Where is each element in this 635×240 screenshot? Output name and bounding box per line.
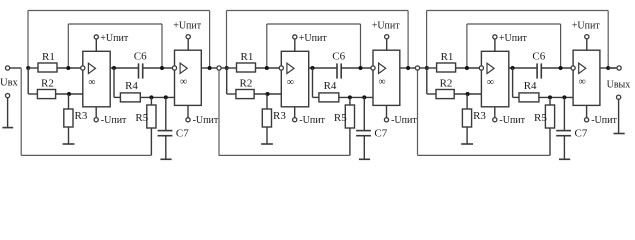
node: R4/R5 node	[548, 95, 552, 99]
wire	[420, 67, 427, 69]
wire R2 to op-amp noninverting input	[454, 93, 481, 95]
node: R4/R5 node	[348, 95, 352, 99]
svg-text:Uвх: Uвх	[0, 77, 19, 88]
+Uпит terminal (op-amp 3)	[294, 39, 296, 51]
capacitor C7 (stage 3)	[563, 97, 565, 130]
svg-text:+Uпит: +Uпит	[299, 33, 328, 44]
svg-text:+Uпит: +Uпит	[100, 33, 129, 44]
wire: op-amp 5 output	[509, 67, 537, 69]
+Uпит terminal (op-amp 6)	[586, 39, 588, 50]
svg-text:∞: ∞	[180, 77, 187, 88]
+Uпит terminal (op-amp 5)	[494, 39, 496, 51]
svg-text:R1: R1	[441, 51, 454, 63]
input terminal Uвх (signal)	[6, 66, 10, 70]
wire: input node down to R2	[426, 68, 428, 94]
terminal: stage 1 to stage 2 coupling	[217, 66, 221, 70]
wire	[221, 67, 227, 69]
node: stage 2 output node	[406, 66, 410, 70]
svg-text:R1: R1	[42, 51, 55, 63]
resistor R3 (stage 2)	[266, 94, 268, 109]
svg-text:R1: R1	[241, 51, 254, 63]
resistor R3 (stage 3)	[466, 94, 468, 109]
wire R4 to op-amp 2 noninverting input	[140, 96, 174, 98]
wire C6 to op-amp 6	[541, 67, 571, 69]
op-amp U2 (stage 1, second)	[175, 50, 202, 105]
node: stage 1 input node	[26, 66, 30, 70]
wire: op-amp 4 output	[400, 67, 416, 69]
svg-text:R2: R2	[240, 77, 253, 89]
svg-text:-Uпит: -Uпит	[299, 115, 325, 126]
resistor R4 (stage 1)	[120, 93, 140, 102]
wire: op-amp 1 output	[110, 67, 138, 69]
svg-text:C7: C7	[176, 128, 189, 140]
ground (below C7)	[559, 158, 570, 160]
capacitor C6 (stage 1)	[138, 63, 140, 78]
node A (stage 2, R1/C6 feedback node)	[265, 66, 269, 70]
-Uпит terminal (op-amp 6)	[586, 105, 588, 117]
-Uпит terminal (op-amp 5)	[494, 107, 496, 118]
wire: stage 1 outer feedback top line	[28, 10, 210, 12]
resistor R2 (stage 2)	[236, 90, 254, 99]
wire: input node down to R2	[27, 68, 29, 94]
resistor R4 (stage 3)	[519, 93, 539, 102]
wire: output node down to R4	[113, 68, 115, 97]
resistor R5 (stage 1)	[150, 97, 152, 105]
op-amp U6 (stage 3, second)	[573, 50, 600, 105]
resistor R3 (stage 1)	[68, 94, 70, 109]
wire: final output	[608, 67, 617, 69]
wire R2 to op-amp noninverting input	[56, 93, 83, 95]
terminal: stage 2 to stage 3 coupling	[415, 66, 419, 70]
wire: op-amp 2 output	[201, 67, 217, 69]
svg-text:+Uпит: +Uпит	[572, 21, 601, 32]
resistor R2 (stage 1)	[37, 90, 55, 99]
svg-text:R3: R3	[75, 110, 88, 122]
resistor R1 (stage 2)	[237, 63, 256, 72]
svg-text:∞: ∞	[579, 77, 586, 88]
wire: stage 3 bottom common line	[419, 154, 550, 156]
svg-text:R5: R5	[334, 112, 347, 124]
svg-text:R2: R2	[440, 77, 453, 89]
ground (below C7)	[160, 158, 171, 160]
resistor R1 (stage 3)	[437, 63, 456, 72]
wire C6 to op-amp 4	[341, 67, 371, 69]
-Uпит terminal (op-amp 1)	[95, 107, 97, 118]
ground (input common)	[2, 127, 13, 129]
svg-text:∞: ∞	[378, 77, 385, 88]
node: R2/R3 node	[466, 92, 470, 96]
-Uпит terminal (op-amp 3)	[294, 107, 296, 118]
svg-text:R3: R3	[273, 110, 286, 122]
resistor R1 (stage 1)	[38, 63, 57, 72]
wire: stage 2 outer feedback top line	[227, 10, 409, 12]
wire: op-amp 6 output	[600, 67, 616, 69]
wire C6 to op-amp 2	[143, 67, 173, 69]
wire	[456, 67, 481, 69]
ground (below R3)	[261, 143, 273, 145]
+Uпит terminal (op-amp 2)	[187, 39, 189, 50]
node: op-amp 5 output node	[511, 66, 515, 70]
node A (stage 3, R1/C6 feedback node)	[465, 66, 469, 70]
node: R2/R3 node	[266, 92, 270, 96]
ground (below R3)	[461, 143, 473, 145]
wire: coupling down to next stage common	[417, 70, 419, 155]
node: stage 3 input node	[425, 66, 429, 70]
wire: stage 3 inner feedback line	[467, 23, 561, 25]
node: R4/C7 node	[362, 95, 366, 99]
-Uпит terminal (op-amp 2)	[187, 105, 189, 117]
node: R4/R5 node	[149, 95, 153, 99]
node: op-amp 3 output node	[311, 66, 315, 70]
capacitor C6 (stage 3)	[536, 63, 538, 78]
wire: stage 2 bottom common line	[219, 154, 350, 156]
wire R4 to op-amp 4 noninverting input	[339, 96, 373, 98]
output terminal (common)	[617, 95, 621, 99]
op-amp U1 (stage 1, first)	[83, 51, 110, 107]
wire: stage 1 bottom common line	[21, 154, 151, 156]
wire: stage 1 inner feedback line	[68, 23, 162, 25]
resistor R4 (stage 2)	[319, 93, 339, 102]
svg-text:∞: ∞	[487, 77, 494, 88]
svg-text:∞: ∞	[88, 77, 95, 88]
+Uпит terminal (op-amp 4)	[386, 39, 388, 50]
node: stage 3 output node	[606, 66, 610, 70]
resistor R2 (stage 3)	[436, 90, 454, 99]
node: C6/R4 node	[559, 66, 563, 70]
wire: stage 2 inner feedback line	[267, 23, 361, 25]
ground (below R3)	[63, 143, 75, 145]
node: op-amp 1 output node	[112, 66, 116, 70]
svg-text:-Uпит: -Uпит	[101, 115, 127, 126]
wire	[227, 67, 237, 69]
wire	[57, 67, 82, 69]
wire: input node down to R2	[226, 68, 228, 94]
wire R4 to op-amp 6 noninverting input	[539, 96, 573, 98]
node: R2/R3 node	[67, 92, 71, 96]
svg-text:R3: R3	[473, 110, 486, 122]
ground (output common)	[614, 133, 625, 135]
capacitor C7 (stage 2)	[363, 97, 365, 130]
svg-text:C6: C6	[532, 50, 545, 62]
resistor R5 (stage 3)	[549, 97, 551, 105]
node: stage 2 input node	[225, 66, 229, 70]
svg-text:Uвых: Uвых	[607, 79, 631, 90]
resistor R5 (stage 2)	[349, 97, 351, 105]
node: stage 1 output node	[208, 66, 212, 70]
svg-text:-Uпит: -Uпит	[391, 115, 417, 126]
node: R4/C7 node	[164, 95, 168, 99]
node: C6/R4 node	[160, 66, 164, 70]
svg-text:R4: R4	[524, 80, 537, 92]
wire	[256, 67, 281, 69]
wire: output node down to R4	[312, 68, 314, 97]
wire	[427, 67, 437, 69]
svg-text:R4: R4	[125, 80, 138, 92]
svg-text:C6: C6	[134, 50, 147, 62]
svg-text:-Uпит: -Uпит	[193, 115, 219, 126]
wire: coupling down to next stage common	[218, 70, 220, 155]
svg-text:-Uпит: -Uпит	[591, 115, 617, 126]
ground (below C7)	[359, 158, 370, 160]
svg-text:R5: R5	[135, 112, 148, 124]
+Uпит terminal (op-amp 1)	[95, 39, 97, 51]
node A (stage 1, R1/C6 feedback node)	[66, 66, 70, 70]
svg-text:+Uпит: +Uпит	[372, 21, 401, 32]
svg-text:R5: R5	[534, 112, 547, 124]
svg-text:C6: C6	[332, 50, 345, 62]
svg-text:+Uпит: +Uпит	[499, 33, 528, 44]
wire: stage 3 outer feedback top line	[427, 10, 609, 12]
svg-text:C7: C7	[374, 128, 387, 140]
node: C6/R4 node	[359, 66, 363, 70]
svg-text:-Uпит: -Uпит	[499, 115, 525, 126]
wire: op-amp 3 output	[309, 67, 337, 69]
svg-text:R2: R2	[41, 77, 54, 89]
input terminal (common)	[6, 94, 10, 98]
op-amp U3 (stage 2, first)	[281, 51, 308, 107]
svg-text:R4: R4	[324, 80, 337, 92]
node: R4/C7 node	[562, 95, 566, 99]
svg-text:∞: ∞	[287, 77, 294, 88]
output terminal Uвых (signal)	[617, 66, 621, 70]
capacitor C6 (stage 2)	[336, 63, 338, 78]
capacitor C7 (stage 1)	[165, 97, 167, 130]
op-amp U5 (stage 3, first)	[481, 51, 508, 107]
-Uпит terminal (op-amp 4)	[386, 105, 388, 117]
op-amp U4 (stage 2, second)	[373, 50, 400, 105]
svg-text:C7: C7	[575, 128, 588, 140]
wire	[28, 67, 38, 69]
wire R2 to op-amp noninverting input	[254, 93, 281, 95]
svg-text:+Uпит: +Uпит	[173, 21, 202, 32]
wire: output node down to R4	[512, 68, 514, 97]
